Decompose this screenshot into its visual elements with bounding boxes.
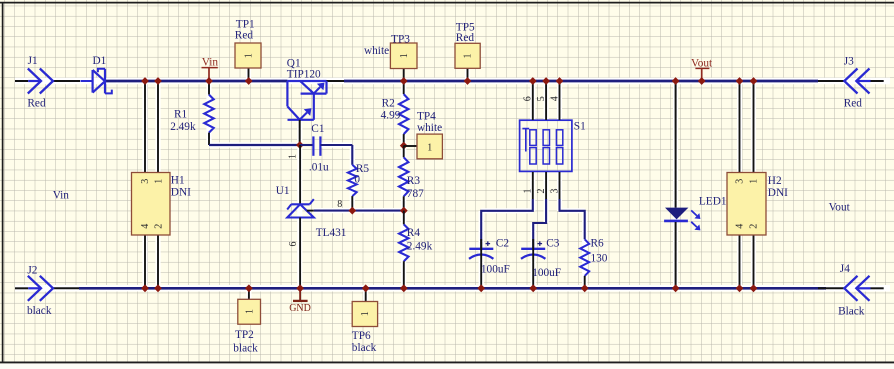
transistor Q1 TIP120 (Darlington) [287,57,327,119]
resistor R4 2.49k [399,211,432,289]
svg-text:787: 787 [407,188,424,200]
svg-text:1: 1 [427,142,432,153]
pin: S1 pin 3 [550,172,561,199]
svg-text:Red: Red [456,32,475,44]
junction dots on ground rail [141,284,757,292]
svg-text:1: 1 [360,311,371,316]
resistor R1 2.49k [170,81,214,145]
svg-text:J1: J1 [28,55,38,67]
shunt regulator U1 TL431 [276,145,347,288]
svg-text:DNI: DNI [171,187,191,199]
wire: J3 pin on Vout rail [818,80,844,82]
svg-text:1: 1 [749,179,760,184]
svg-text:U1: U1 [276,185,290,197]
svg-text:H1: H1 [171,175,185,187]
svg-text:Red: Red [27,97,46,109]
svg-text:1: 1 [244,53,255,58]
wire: R1 bottom to Q1 base node [209,144,300,146]
LED LED1 [664,81,726,288]
svg-text:Black: Black [838,306,865,318]
connector J3 [844,55,884,109]
wire: D1 cathode to Q1 (Vin rail) [105,80,287,83]
capacitor C3 100uF (polarized) [521,237,561,288]
svg-text:Red: Red [844,97,863,109]
svg-text:6: 6 [523,96,534,101]
capacitor C1 .01u [300,123,352,174]
svg-text:130: 130 [591,252,608,264]
svg-text:D1: D1 [93,55,107,67]
svg-text:3: 3 [140,179,151,184]
svg-text:100uF: 100uF [532,267,561,279]
node: R3/R4/ref junction [400,207,408,215]
svg-text:1: 1 [463,54,474,59]
resistor R3 787 [399,146,424,211]
svg-text:3: 3 [550,189,561,194]
node: R5 bottom on ref wire [348,207,356,215]
svg-text:5: 5 [536,96,547,101]
pin: S1 pin 1 [523,172,534,199]
node: R2/R3/TP4 junction [400,142,408,150]
svg-text:2: 2 [154,224,165,229]
connector J2 [15,264,53,317]
svg-text:2: 2 [749,224,760,229]
svg-text:0: 0 [354,174,360,186]
test point TP1 (Red) [235,18,261,81]
wire: Q1 emitter pin stub [327,80,345,82]
svg-text:R1: R1 [174,108,187,120]
resistor R2 4.99 [381,81,409,146]
svg-text:Q1: Q1 [287,57,301,69]
svg-text:.01u: .01u [309,161,329,173]
svg-text:black: black [352,342,377,354]
wire: Vout top rail [344,80,818,83]
svg-text:J3: J3 [844,55,854,67]
svg-text:J2: J2 [27,264,37,276]
resistor R6 130 [580,237,608,288]
svg-text:TP6: TP6 [352,330,371,342]
svg-text:1: 1 [154,179,165,184]
test point TP5 (Red) [455,21,480,81]
connector J1 [15,55,53,109]
svg-text:TIP120: TIP120 [287,69,321,81]
connector J4 [838,263,884,318]
svg-text:DNI: DNI [768,187,788,199]
svg-text:J4: J4 [840,263,850,275]
text Vin (input note) [53,189,70,201]
svg-text:TP2: TP2 [235,329,254,341]
svg-text:LED1: LED1 [699,195,727,207]
test point TP3 (white) [364,34,417,81]
pin: S1 pin 2 [536,172,547,199]
net label Vin [202,56,219,79]
wire: J4 pin [818,287,844,289]
svg-text:R4: R4 [407,227,421,239]
svg-text:TP1: TP1 [236,18,255,30]
svg-text:C3: C3 [546,237,560,249]
wire: J2 pin to ground rail [53,287,79,289]
svg-text:2: 2 [536,189,547,194]
svg-text:1: 1 [523,189,534,194]
svg-text:white: white [417,122,442,134]
pin: S1 pin 4 [550,81,561,120]
test point TP4 (white) [404,110,443,158]
resistor R5 0 [348,145,370,211]
svg-text:Vout: Vout [829,202,851,214]
svg-text:black: black [233,343,258,355]
svg-text:1: 1 [288,154,299,159]
node: Q1 base / R1 / C1 / U1 junction [296,141,304,149]
wire: bottom ground rail [79,287,826,290]
svg-text:Vin: Vin [202,56,219,68]
capacitor C2 100uF (polarized) [469,237,510,288]
svg-text:C2: C2 [496,237,510,249]
rail halo [15,68,890,302]
mounting header H2 (DNI) [727,81,788,288]
svg-text:3: 3 [735,179,746,184]
svg-text:Red: Red [235,30,254,42]
svg-text:Vin: Vin [53,189,70,201]
svg-text:100uF: 100uF [481,264,510,276]
svg-text:R2: R2 [382,97,396,109]
wire: S1 pin3 to R6 [560,199,585,239]
svg-text:white: white [364,45,389,57]
pin: S1 pin 6 [523,81,534,120]
svg-text:4: 4 [735,224,746,229]
svg-text:GND: GND [289,303,311,314]
svg-text:8: 8 [337,199,342,210]
switch S1 (3-position DIP) [520,120,586,171]
test point TP2 (black) [233,288,260,354]
svg-text:4: 4 [140,224,151,229]
svg-text:TP4: TP4 [417,110,436,122]
diode D1 (Schottky) [81,55,112,93]
svg-text:TL431: TL431 [316,227,347,239]
svg-text:R3: R3 [407,175,421,187]
svg-text:2.49k: 2.49k [407,240,433,252]
svg-text:C1: C1 [311,123,324,135]
svg-text:H2: H2 [768,175,782,187]
test point TP6 (black) [352,288,378,354]
mounting header H1 (DNI) [132,81,192,288]
pin: Q1 base down to node [299,120,301,145]
svg-text:1: 1 [244,309,255,314]
svg-text:6: 6 [288,242,299,247]
svg-text:Vout: Vout [691,57,713,69]
svg-text:2.49k: 2.49k [170,121,196,133]
junction dots on Vin/Vout rail [141,77,757,85]
ground GND power port [289,288,311,314]
svg-text:4: 4 [550,96,561,101]
svg-text:S1: S1 [574,120,586,132]
net label Vout [691,57,713,79]
text Vout (output note) [829,202,851,214]
pin: S1 pin 5 [536,81,547,120]
wire: J1 pin to D1 anode (Vin rail) [53,80,80,82]
svg-text:black: black [27,305,52,317]
wire: U1 ref to R3/R4 node [314,210,404,212]
svg-text:4.99: 4.99 [381,110,401,122]
wire: S1 pin2 to C3 [533,199,546,248]
svg-text:1: 1 [399,53,410,58]
svg-text:TP3: TP3 [391,34,410,46]
svg-text:R6: R6 [591,237,605,249]
wire: S1 pin1 to C2 [481,199,533,248]
